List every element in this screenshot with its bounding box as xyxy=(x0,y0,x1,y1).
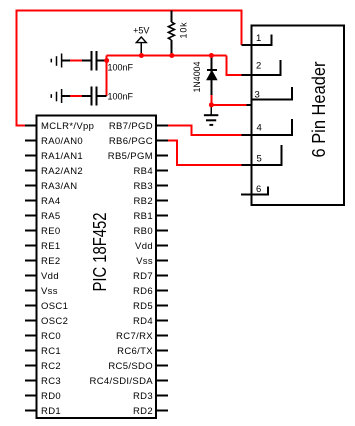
svg-text:RB1: RB1 xyxy=(133,211,153,222)
junction node at diode D1 anode / ground xyxy=(209,102,214,107)
connector J1 pin 6 lead xyxy=(252,187,269,195)
ground symbol GND2 (rotated, left of capacitor C2) xyxy=(51,89,61,103)
PIC U1 left pin labels xyxy=(41,121,94,417)
svg-text:RD4: RD4 xyxy=(133,316,153,327)
wire: red segment diode D1 anode to ground junction xyxy=(210,95,212,107)
wire: +5V net to header pin 2 xyxy=(227,56,242,75)
svg-text:RB7/PGD: RB7/PGD xyxy=(109,121,153,132)
PIC U1 body xyxy=(37,116,157,419)
wire: ground GND1 to capacitor C1 xyxy=(62,60,92,62)
svg-text:Vdd: Vdd xyxy=(41,271,59,282)
svg-text:RB3: RB3 xyxy=(133,181,153,192)
svg-text:Vss: Vss xyxy=(41,286,58,297)
wire: capacitor C1 to +5V node xyxy=(97,60,107,62)
wire: capacitor C2 to +5V vertical xyxy=(97,95,107,97)
svg-text:Vss: Vss xyxy=(136,256,153,267)
svg-text:OSC1: OSC1 xyxy=(41,301,68,312)
svg-text:6 Pin Header: 6 Pin Header xyxy=(309,62,329,158)
svg-text:3: 3 xyxy=(255,89,261,100)
svg-text:RE2: RE2 xyxy=(41,256,61,267)
svg-text:RA0/AN0: RA0/AN0 xyxy=(41,136,83,147)
svg-text:RC3: RC3 xyxy=(41,376,61,387)
svg-text:RB0: RB0 xyxy=(133,226,153,237)
connector J1 pin 1 lead xyxy=(252,35,272,45)
wire: red segment on capacitor C1 ground lead xyxy=(70,60,82,62)
svg-text:RC0: RC0 xyxy=(41,331,61,342)
svg-text:RB2: RB2 xyxy=(133,196,153,207)
svg-text:RE1: RE1 xyxy=(41,241,61,252)
resistor R1 10k xyxy=(170,11,172,23)
svg-text:RB6/PGC: RB6/PGC xyxy=(109,136,153,147)
svg-text:RD2: RD2 xyxy=(133,406,153,417)
svg-text:RB5/PGM: RB5/PGM xyxy=(108,151,153,162)
junction node at diode D1 cathode xyxy=(209,53,214,58)
svg-text:5: 5 xyxy=(257,153,263,164)
wire: RB6/PGC to header pin 5 xyxy=(166,141,242,165)
connector J1 pin 2 lead xyxy=(252,60,281,75)
wire: MCLR net - top bus from left vertical to header pin 1 xyxy=(17,11,242,126)
svg-text:RA2/AN2: RA2/AN2 xyxy=(41,166,83,177)
svg-text:RC1: RC1 xyxy=(41,346,61,357)
wire: ground GND2 to capacitor C2 xyxy=(62,95,92,97)
svg-text:2: 2 xyxy=(256,60,262,71)
svg-text:RC2: RC2 xyxy=(41,361,61,372)
wire: red segment on capacitor C2 ground lead xyxy=(70,95,82,97)
svg-text:100nF: 100nF xyxy=(108,62,134,72)
wire: +5V bus horizontal xyxy=(107,55,227,57)
svg-text:+5V: +5V xyxy=(133,25,149,35)
svg-text:RE0: RE0 xyxy=(41,226,61,237)
connector J1 pin 3 lead xyxy=(252,87,293,100)
svg-text:RD5: RD5 xyxy=(133,301,153,312)
PIC U1 right pin labels xyxy=(89,121,153,417)
svg-text:6: 6 xyxy=(256,184,262,195)
svg-text:RA4: RA4 xyxy=(41,196,61,207)
+5V supply symbol xyxy=(136,37,146,43)
diode D1 1N4004 xyxy=(210,56,212,96)
svg-text:RD0: RD0 xyxy=(41,391,61,402)
ground symbol GND3 (below diode D1) xyxy=(204,115,218,125)
ground symbol GND1 (rotated, left of capacitor C1) xyxy=(51,54,61,68)
junction node at resistor R1 bottom xyxy=(169,53,174,58)
capacitor C2 plates xyxy=(92,86,97,105)
wire: RB7/PGD to header pin 4 xyxy=(166,126,242,135)
svg-text:RC5/SDO: RC5/SDO xyxy=(108,361,153,372)
svg-text:Vdd: Vdd xyxy=(135,241,153,252)
PIC microcontroller U1 pin stubs left xyxy=(25,126,37,411)
svg-text:RD6: RD6 xyxy=(133,286,153,297)
svg-text:RA5: RA5 xyxy=(41,211,61,222)
svg-text:RD3: RD3 xyxy=(133,391,153,402)
junction node at capacitor C1 / +5V net xyxy=(104,58,109,63)
capacitor C1 plates xyxy=(92,51,97,71)
svg-text:RC7/RX: RC7/RX xyxy=(116,331,153,342)
wire: +5V net vertical between capacitor C1 and C2 nodes xyxy=(106,56,108,97)
svg-text:RC6/TX: RC6/TX xyxy=(117,346,153,357)
PIC microcontroller U1 pin stubs right xyxy=(156,126,168,411)
svg-text:RC4/SDI/SDA: RC4/SDI/SDA xyxy=(89,376,153,387)
svg-text:MCLR*/Vpp: MCLR*/Vpp xyxy=(41,121,94,132)
svg-text:4: 4 xyxy=(257,122,263,133)
connector J1 pin 4 lead xyxy=(252,119,293,135)
connector J1 6 Pin Header external pin stubs xyxy=(241,45,252,195)
wire: MCLR net - horizontal into PIC MCLR pin xyxy=(16,125,28,127)
svg-text:100nF: 100nF xyxy=(108,92,134,102)
svg-text:1N4004: 1N4004 xyxy=(192,62,202,93)
svg-text:RB4: RB4 xyxy=(133,166,153,177)
svg-text:RD1: RD1 xyxy=(41,406,61,417)
svg-text:OSC2: OSC2 xyxy=(41,316,68,327)
connector J1 pin 5 lead xyxy=(252,145,282,165)
svg-text:PIC 18F452: PIC 18F452 xyxy=(90,213,110,292)
junction node at +5V symbol xyxy=(139,53,144,58)
svg-text:RD7: RD7 xyxy=(133,271,153,282)
wire: ground net to header pin 3 xyxy=(211,104,246,106)
svg-text:RA1/AN1: RA1/AN1 xyxy=(41,151,83,162)
svg-text:RA3/AN: RA3/AN xyxy=(41,181,77,192)
wire: ground junction stem under diode xyxy=(210,107,212,116)
svg-text:10k: 10k xyxy=(178,22,188,39)
svg-text:1: 1 xyxy=(256,33,262,44)
connector J1 body xyxy=(252,25,344,205)
